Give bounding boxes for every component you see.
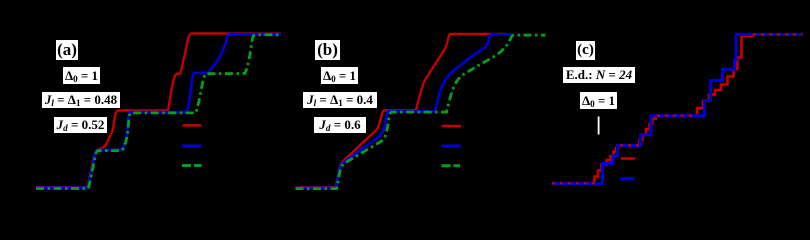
panel c: blue staircase: [552, 34, 803, 183]
label box (c): [576, 41, 595, 60]
panel c legend: blue swatch: [621, 177, 635, 180]
panel c: red staircase: [552, 34, 803, 183]
panel b legend: blue swatch: [442, 145, 462, 148]
panel b legend: red swatch: [442, 125, 462, 128]
panel c: red dashes over shared top plateau: [753, 33, 803, 35]
label box a: Jd = 0.52: [54, 117, 107, 133]
panel a legend: blue swatch: [182, 145, 202, 148]
panel b: green dash-dot curve: [296, 35, 546, 189]
label box c: E.d.: N = 24: [563, 67, 635, 83]
panel a: green dash-dot curve: [36, 35, 281, 189]
panel c: red dashes over shared bottom plateau: [552, 182, 597, 184]
label box c: delta0 = 1: [580, 92, 617, 109]
panel c: red dashes over shared 115 plateau: [657, 115, 697, 117]
panel a legend: green swatch: [182, 164, 202, 167]
label box (a): [56, 40, 78, 60]
label box (b): [315, 40, 340, 60]
panel a: red curve: [36, 34, 281, 188]
panel b: red curve: [296, 34, 506, 187]
panel a legend: red swatch: [183, 124, 202, 127]
label box a: Jl = delta1 = 0.48: [42, 92, 120, 108]
label box a: delta0 = 1: [63, 67, 100, 84]
panel b: blue curve: [296, 34, 513, 188]
panel b legend: green swatch: [442, 164, 461, 167]
panel c: white tick line: [598, 117, 600, 135]
panel c legend: red swatch: [621, 157, 636, 160]
panel c: red dashes over shared 145 plateau: [620, 144, 640, 146]
label box b: Jl = delta1 = 0.4: [303, 92, 377, 108]
label box b: delta0 = 1: [321, 67, 358, 84]
label box b: Jd = 0.6: [314, 117, 366, 133]
panel a: blue curve: [36, 34, 281, 188]
